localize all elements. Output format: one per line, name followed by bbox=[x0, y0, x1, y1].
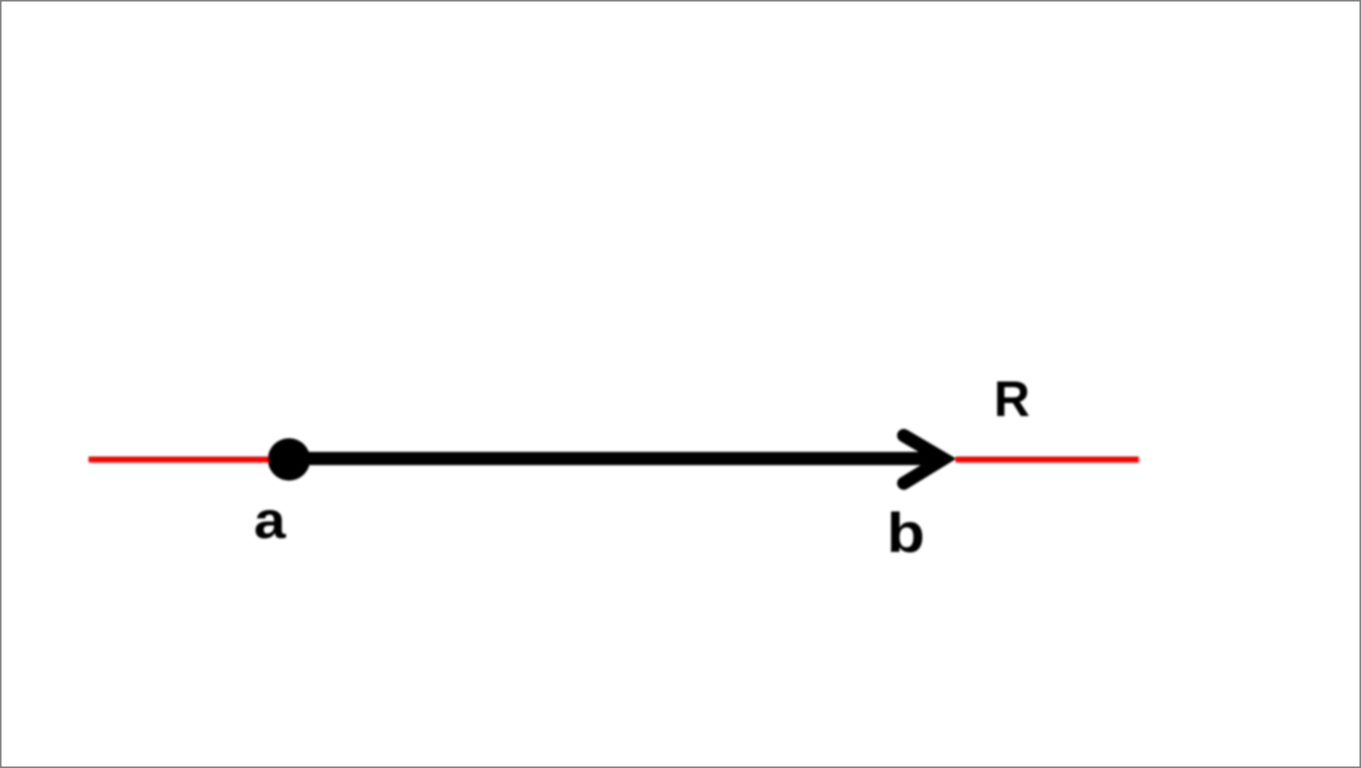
label R bbox=[994, 371, 1030, 427]
wire: vector shaft from a to b bbox=[289, 452, 943, 465]
arrowhead at b bbox=[904, 436, 944, 484]
svg-text:a: a bbox=[254, 490, 286, 549]
svg-text:b: b bbox=[887, 501, 925, 564]
label b bbox=[887, 501, 925, 564]
label a bbox=[254, 490, 286, 549]
wire: red lead right of arrow tip (net R) bbox=[956, 457, 1139, 463]
svg-text:R: R bbox=[994, 371, 1030, 427]
wire: red lead left of node a bbox=[89, 457, 291, 463]
node a (junction dot) bbox=[268, 438, 310, 480]
